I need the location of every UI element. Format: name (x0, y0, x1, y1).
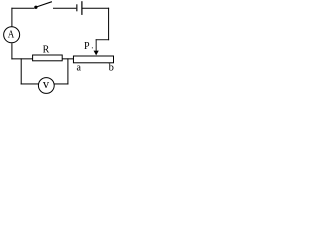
battery plate short (76, 4, 77, 11)
wire: switch to battery (53, 8, 76, 9)
svg-text:P: P (84, 41, 90, 52)
resistor R body (33, 55, 63, 61)
ammeter body (4, 27, 20, 43)
wire: ammeter bottom drop (11, 43, 12, 59)
wire: ammeter rail to resistor (11, 58, 32, 59)
svg-text:A: A (8, 29, 15, 41)
voltmeter body (38, 78, 54, 94)
battery plate long (81, 1, 82, 15)
switch pivot dot (34, 6, 37, 9)
wire: left corner vertical down to ammeter (11, 8, 12, 27)
wire: wiper stem (95, 39, 98, 51)
svg-text:R: R (43, 44, 50, 55)
wire: left voltmeter drop (21, 58, 22, 84)
wire: right voltmeter drop (67, 58, 68, 84)
background (0, 0, 115, 97)
wire: voltmeter left horizontal (21, 83, 39, 84)
wire: resistor to potentiometer (62, 58, 74, 59)
small speck artifact right of P (91, 47, 94, 48)
wire: battery to top-right corner (83, 8, 110, 9)
svg-text:v: v (43, 77, 50, 91)
wiper arrowhead (94, 51, 99, 56)
svg-text:a: a (77, 63, 82, 74)
wire: jog horizontal (96, 38, 109, 41)
potentiometer track P (73, 56, 113, 63)
wire: top rail left segment (11, 8, 34, 9)
wire: right vertical (108, 8, 109, 40)
switch blade (open) (36, 2, 52, 7)
svg-text:b: b (109, 63, 114, 74)
wire: voltmeter right horizontal (54, 83, 68, 84)
